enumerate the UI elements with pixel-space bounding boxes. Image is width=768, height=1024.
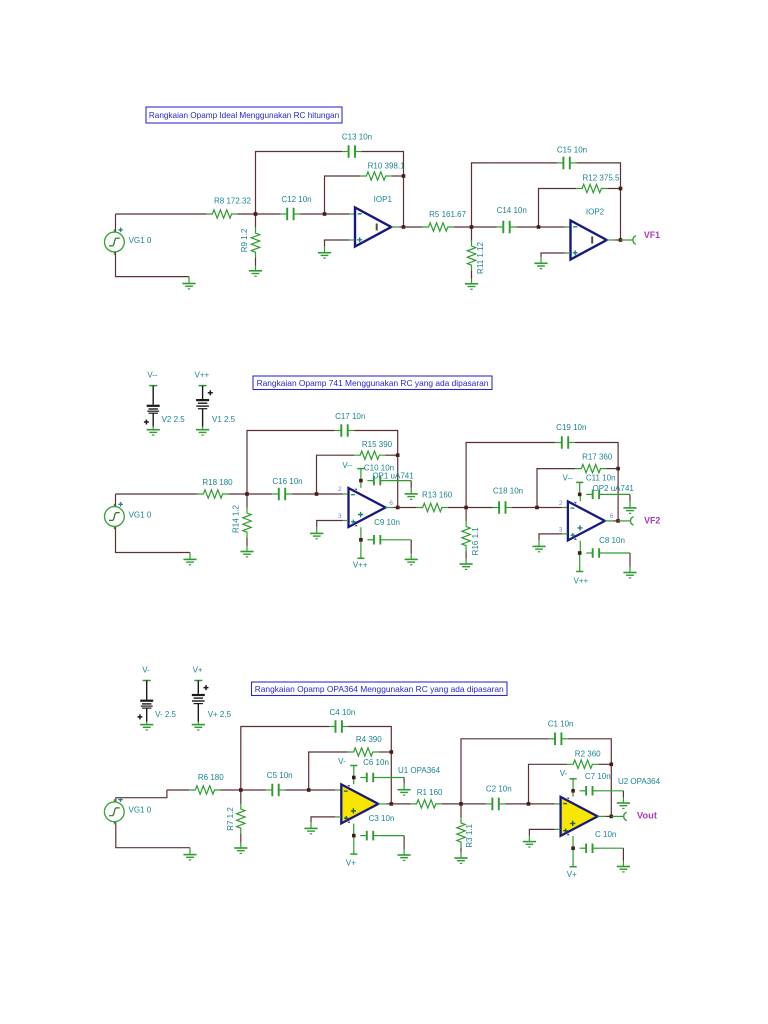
voltage source VG1 [104,797,124,824]
resistor R9 [251,214,259,266]
svg-text:C8 10n: C8 10n [599,536,625,545]
resistor R15 [354,451,385,459]
capacitor C9 [367,535,386,545]
svg-text:R9 1.2: R9 1.2 [240,228,249,252]
wire [621,239,633,241]
ground [460,559,473,570]
svg-text:C 10n: C 10n [595,830,616,839]
wire [391,226,403,228]
wire [325,176,361,214]
ground [398,849,411,860]
svg-text:V-: V- [338,757,346,766]
capacitor C4 [329,720,348,733]
label C9 value [374,518,400,527]
pin 6 [610,513,614,520]
resistor R5 [423,223,454,231]
junction [352,776,356,780]
node input junction [254,212,258,216]
resistor R6 [189,786,220,794]
battery V+ [192,665,232,730]
label op-amp OP1 uA741 [372,472,414,481]
svg-text:R4 390: R4 390 [356,735,382,744]
label R1 value [417,788,443,797]
svg-text:6: 6 [389,500,393,507]
junction [359,479,363,483]
capacitor C2 [486,798,505,811]
svg-text:C15 10n: C15 10n [557,146,587,155]
svg-text:2: 2 [559,500,563,507]
svg-text:V--: V-- [342,461,353,470]
wire [606,494,630,502]
resistor R8 [206,210,237,218]
svg-text:R12 375.5: R12 375.5 [583,173,620,182]
wire [116,252,190,277]
svg-text:3: 3 [559,527,563,534]
pin 3 [338,513,342,520]
label C12 value [281,195,311,204]
resistor R17 [575,464,606,472]
label R10 value [368,161,405,170]
junction [571,846,575,850]
power terminal V++ [353,540,368,570]
svg-text:C7 10n: C7 10n [585,772,611,781]
wire [386,507,398,509]
label op-amp IOP2 [586,208,605,217]
svg-text:V+: V+ [346,858,356,867]
svg-text:R7 1.2: R7 1.2 [226,807,235,831]
wire [472,163,557,227]
svg-text:V++: V++ [195,370,210,379]
svg-text:R14 1.2: R14 1.2 [232,504,241,533]
wire [575,443,618,521]
capacitor C12 [281,208,300,221]
svg-text:V-: V- [560,769,568,778]
battery V- [137,665,176,730]
wire [229,493,273,495]
svg-text:C17 10n: C17 10n [335,412,365,421]
svg-text:IOP1: IOP1 [374,195,393,204]
label C4 value [330,708,356,717]
wire [354,431,398,508]
svg-text:VF1: VF1 [644,230,660,240]
label R8 value [214,196,251,205]
label R7 value [226,807,235,831]
wire [116,526,191,552]
wire [599,848,623,860]
node feedback junction [537,225,541,229]
svg-text:R10 398.1: R10 398.1 [368,161,405,170]
power terminal V+ [567,848,577,879]
node output [402,225,406,229]
label VG1 value [129,510,152,519]
wire [256,152,343,215]
label C6 value [363,758,389,767]
node input junction [464,506,468,510]
label R18 value [202,478,233,487]
node feedback resistor right [390,750,394,754]
svg-text:V+: V+ [567,870,577,879]
label C2 value [486,784,512,793]
ground [534,257,547,268]
wire [309,752,348,790]
wire [380,836,404,849]
label C14 value [497,206,527,215]
svg-text:R17 360: R17 360 [582,452,613,461]
wire [537,469,575,508]
resistor R7 [237,790,245,843]
ground [465,279,478,290]
wire [387,481,411,488]
svg-text:V++: V++ [353,561,368,570]
label R15 value [362,440,393,449]
node feedback junction [307,788,311,792]
svg-text:U2 OPA364: U2 OPA364 [618,777,661,786]
output terminal VF2 [631,517,634,525]
svg-text:C19 10n: C19 10n [556,423,586,432]
power terminal V- [560,769,568,778]
wire [539,534,568,541]
wire [115,494,117,507]
label C3 value [369,814,395,823]
wire [607,239,621,241]
ground [523,836,536,847]
label C8 value [599,536,625,545]
resistor R13 [417,503,448,511]
wire [461,739,549,804]
node feedback resistor right [396,453,400,457]
wire [404,226,423,228]
label VF2 [644,515,660,525]
resistor R1 [411,800,442,808]
wire [576,482,583,494]
label C1 value [548,720,574,729]
svg-text:V--: V-- [147,370,158,379]
label C5 value [267,771,293,780]
ground [182,277,195,289]
power terminal V+ [346,836,358,868]
label C19 value [556,423,586,432]
node feedback resistor right [616,467,620,471]
svg-text:Vout: Vout [637,809,657,820]
wire [357,469,364,481]
label C17 value [335,412,365,421]
capacitor C14 [497,221,516,234]
label R3 value [465,823,474,847]
wire [317,521,349,528]
junction [352,834,356,838]
capacitor C [580,844,599,854]
wire [317,455,355,494]
node output [619,238,623,242]
wire [442,803,486,805]
svg-text:C1 10n: C1 10n [548,720,574,729]
label op-amp IOP1 [374,195,393,204]
label VG1 value [129,806,152,815]
junction [571,789,575,793]
op-amp IOP1 [355,208,391,247]
wire [576,163,620,240]
capacitor C5 [266,784,285,797]
resistor R4 [348,748,379,756]
svg-text:U1 OPA364: U1 OPA364 [398,766,441,775]
wire [115,214,117,232]
label R16 value [471,527,480,556]
wire [311,817,341,823]
svg-text:C2 10n: C2 10n [486,784,512,793]
wire [241,727,329,791]
wire [398,507,417,509]
power terminal V- [338,757,346,766]
node feedback resistor right [619,187,623,191]
wire [116,822,190,848]
svg-text:V+ 2.5: V+ 2.5 [208,710,232,719]
wire [606,553,630,567]
node feedback junction [527,802,531,806]
resistor R3 [457,804,465,853]
op-amp U1 OPA364 [341,777,378,835]
battery V2 [144,370,185,435]
label R2 value [575,749,601,758]
wire [116,790,167,802]
svg-text:3: 3 [338,513,342,520]
svg-text:R3 1.1: R3 1.1 [465,823,474,847]
junction [359,538,363,542]
wire [454,226,497,228]
capacitor C1 [549,733,568,746]
label C7 value [585,772,611,781]
svg-text:R16 1.1: R16 1.1 [471,527,480,556]
svg-text:R2 360: R2 360 [575,749,601,758]
node input junction [470,225,474,229]
capacitor C11 [586,490,605,500]
pin 3 [559,527,563,534]
capacitor C7 [580,786,599,796]
ground [617,797,630,808]
svg-text:V2 2.5: V2 2.5 [162,415,186,424]
wire [605,520,618,522]
label VG1 value [129,236,152,245]
resistor R16 [462,508,470,559]
wire [325,240,355,247]
wire [516,226,570,228]
svg-text:C9 10n: C9 10n [374,518,400,527]
ground [532,540,545,551]
wire [167,789,189,791]
ground [405,488,418,499]
capacitor C13 [342,145,361,158]
wire [529,829,560,835]
pin 2 [338,486,342,493]
wire [362,152,404,228]
wire [570,779,577,791]
label R13 value [422,490,453,499]
label C15 value [557,146,587,155]
wire [116,213,207,215]
wire [598,815,612,817]
label R14 value [232,504,241,533]
ground [617,861,630,872]
wire [387,540,411,554]
svg-text:Rangkaian Opamp Ideal Mengguna: Rangkaian Opamp Ideal Menggunakan RC hit… [149,111,340,120]
wire [611,815,623,817]
wire [618,520,630,522]
svg-text:VF2: VF2 [644,515,660,525]
node output [390,802,394,806]
node feedback junction [535,506,539,510]
power terminal V++ [574,553,589,586]
ground [623,502,636,513]
power terminal V-- [342,461,353,470]
svg-text:R18 180: R18 180 [202,478,233,487]
label R17 value [582,452,613,461]
wire [385,454,397,456]
svg-text:V++: V++ [574,577,589,586]
label VF1 [644,230,660,240]
resistor R11 [467,227,475,279]
node input junction [245,492,249,496]
svg-text:VG1 0: VG1 0 [129,806,152,815]
svg-text:C3 10n: C3 10n [369,814,395,823]
wire [391,803,410,805]
wire [116,493,198,495]
wire [300,213,355,215]
svg-text:VG1 0: VG1 0 [129,236,152,245]
svg-text:C11 10n: C11 10n [586,474,616,483]
svg-text:V-: V- [142,665,150,674]
node output [616,519,620,523]
label C13 value [342,132,372,141]
capacitor C15 [557,157,576,170]
wire [541,253,570,257]
svg-text:C14 10n: C14 10n [497,206,527,215]
wire [285,789,341,791]
ground [398,784,411,795]
svg-text:C13 10n: C13 10n [342,132,372,141]
ground [240,546,253,557]
pin 6 [389,500,393,507]
label R11 value [476,242,485,274]
op-amp OP2 uA741 [568,494,605,552]
ground [454,853,467,864]
node input junction [239,788,243,792]
label R6 value [198,773,224,782]
node feedback resistor right [402,174,406,178]
label C18 value [493,487,523,496]
capacitor C10 [367,476,386,486]
svg-text:VG1 0: VG1 0 [129,510,152,519]
ground [318,247,331,258]
op-amp OP1 uA741 [349,481,386,539]
capacitor C6 [360,773,379,782]
wire [292,493,349,495]
ground [183,848,196,860]
label C10 value [364,464,394,473]
label Vout [637,809,657,820]
wire [350,766,357,778]
svg-text:IOP2: IOP2 [586,208,605,217]
voltage source VG1 [105,502,125,529]
resistor R14 [243,494,251,546]
pin 2 [559,500,563,507]
svg-text:C18 10n: C18 10n [493,487,523,496]
svg-text:V+: V+ [193,665,203,674]
wire [238,213,281,215]
wire [380,778,404,784]
svg-text:C12 10n: C12 10n [281,195,311,204]
svg-text:C6 10n: C6 10n [363,758,389,767]
wire [348,727,391,804]
svg-text:R6 180: R6 180 [198,773,224,782]
ground [405,553,418,564]
svg-text:R15 390: R15 390 [362,440,393,449]
node input junction [459,802,463,806]
output terminal Vout [624,812,627,820]
svg-text:R13 160: R13 160 [422,490,453,499]
ground [304,822,317,833]
svg-text:C16 10n: C16 10n [272,477,302,486]
resistor R10 [360,172,391,180]
title circuit 1 [146,107,342,123]
battery V1 [195,370,236,435]
capacitor C17 [335,424,354,437]
junction [578,493,582,497]
svg-text:V- 2.5: V- 2.5 [155,710,176,719]
ground [183,553,196,565]
wire [568,739,611,817]
capacitor C3 [360,831,379,841]
node feedback junction [323,212,327,216]
node output [610,815,614,819]
label op-amp OP2 uA741 [593,484,635,493]
wire [607,468,619,470]
wire [379,751,392,753]
wire [512,507,568,509]
ground [249,266,262,277]
title circuit 3 [252,682,508,696]
wire [448,507,493,509]
ground [310,527,323,538]
resistor R2 [567,760,598,768]
svg-text:C5 10n: C5 10n [267,771,293,780]
wire [221,789,266,791]
capacitor C16 [272,488,291,501]
title circuit 2 [253,376,492,390]
label op-amp U1 OPA364 [398,766,441,775]
junction [578,551,582,555]
svg-text:Rangkaian Opamp OPA364 Menggun: Rangkaian Opamp OPA364 Menggunakan RC ya… [255,684,504,694]
ground [623,567,636,578]
svg-text:R5 161.67: R5 161.67 [429,210,466,219]
svg-text:OP2 uA741: OP2 uA741 [593,484,635,493]
capacitor C18 [493,501,512,514]
label R4 value [356,735,382,744]
svg-text:R1 160: R1 160 [417,788,443,797]
svg-text:V--: V-- [562,474,573,483]
resistor R18 [197,490,228,498]
wire [505,803,560,805]
wire [539,189,577,228]
node feedback resistor right [610,763,614,767]
svg-text:OP1 uA741: OP1 uA741 [372,472,414,481]
label R5 value [429,210,466,219]
svg-text:R8 172.32: R8 172.32 [214,196,251,205]
svg-text:6: 6 [610,513,614,520]
wire [599,791,623,797]
voltage source VG1 [105,228,125,255]
label C16 value [272,477,302,486]
wire [529,764,568,804]
op-amp IOP2 [571,221,607,260]
